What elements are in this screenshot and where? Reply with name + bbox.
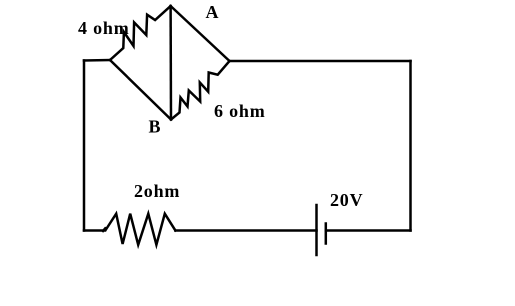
wire right edge: [409, 61, 412, 231]
wire bottom-left segment: [84, 229, 105, 232]
svg-text:B: B: [149, 117, 162, 137]
svg-text:2ohm: 2ohm: [134, 181, 180, 201]
wire top-right segment: [230, 60, 411, 63]
svg-text:20V: 20V: [330, 190, 363, 210]
wire bottom-middle segment: [175, 229, 316, 232]
wire left edge: [83, 61, 86, 231]
battery 20V negative plate: [325, 224, 328, 244]
wire diamond edge A to right node: [171, 6, 230, 61]
wire diamond edge left node to B: [110, 60, 171, 120]
svg-text:6 ohm: 6 ohm: [214, 101, 266, 121]
wire bottom-right segment: [326, 229, 411, 232]
svg-text:4 ohm: 4 ohm: [78, 18, 130, 38]
svg-text:A: A: [206, 2, 220, 22]
resistor 6 ohm: [171, 61, 230, 120]
resistor 2 ohm: [103, 214, 175, 245]
wire bridge diagonal A-B: [169, 6, 172, 120]
resistor 4 ohm: [110, 6, 171, 60]
wire top-left segment: [84, 59, 110, 62]
battery 20V positive plate: [315, 205, 318, 255]
